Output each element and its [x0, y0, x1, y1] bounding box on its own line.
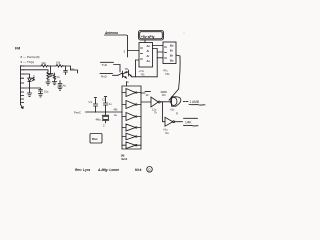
- inverter chain gate 2: [122, 101, 141, 109]
- svg-text:C1: C1: [89, 100, 93, 104]
- chain right rail: [140, 86, 142, 149]
- label LAK box: [184, 117, 198, 119]
- gate1 output tap: [141, 92, 145, 94]
- svg-text:PwrC: PwrC: [74, 111, 81, 115]
- svg-text:TxD: TxD: [102, 63, 108, 67]
- svg-text:Bo: Bo: [170, 44, 174, 48]
- svg-text:Ar: Ar: [147, 54, 150, 58]
- wire: [64, 66, 71, 71]
- svg-text:*91: *91: [141, 73, 146, 77]
- capacitor C1: [93, 98, 97, 112]
- U5 output wire: [175, 121, 183, 123]
- resistor R1: [41, 65, 49, 68]
- connector J1 bus: [20, 66, 22, 105]
- svg-text:TR: TR: [125, 67, 129, 71]
- svg-text:Antenna: Antenna: [104, 31, 118, 35]
- transistor Q2: [126, 70, 132, 77]
- ground: [38, 94, 42, 97]
- wire diagonal to U2: [169, 89, 179, 100]
- chain top bar: [122, 85, 141, 87]
- overline TxD: [101, 61, 114, 63]
- ground: [48, 74, 53, 77]
- wire stub: [24, 74, 30, 78]
- connector J1 pin stubs: [21, 66, 25, 103]
- ground: [58, 87, 62, 90]
- reset box: [90, 134, 102, 144]
- U2 pin text right column: [170, 44, 174, 63]
- U1 pin marks left column: [141, 48, 143, 59]
- svg-text:1/4K: 1/4K: [185, 121, 192, 125]
- inverter chain gate 3: [122, 113, 141, 121]
- inverter U3: [151, 97, 158, 107]
- capacitor C2: [103, 97, 107, 112]
- IC U2: [163, 42, 176, 64]
- svg-text:FM: FM: [15, 47, 20, 51]
- wire Q out: [132, 76, 158, 78]
- svg-text:A-Mfg: Lower: A-Mfg: Lower: [97, 168, 120, 172]
- wire U2 left bus: [156, 49, 158, 77]
- wire stub down: [50, 66, 52, 74]
- diode D1: [28, 78, 31, 86]
- wire TxD: [114, 65, 121, 73]
- caption circled D: [147, 167, 153, 173]
- svg-text:+5v: +5v: [170, 108, 175, 112]
- U3 output wire: [160, 101, 171, 103]
- inverter chain gate 1: [122, 89, 141, 97]
- ground: [46, 80, 50, 86]
- svg-text:9 — TX(p): 9 — TX(p): [21, 60, 35, 64]
- node dot: [95, 111, 96, 112]
- node dot: [50, 65, 51, 66]
- U1 pin text right column: [147, 44, 151, 63]
- svg-text:8 — PwrUp(9): 8 — PwrUp(9): [21, 55, 40, 59]
- svg-text:Rev: Lyra: Rev: Lyra: [75, 168, 90, 172]
- wire supply to U1: [144, 40, 146, 43]
- wire second rail: [24, 70, 48, 72]
- inverter U5: [165, 117, 173, 126]
- svg-text:10u: 10u: [44, 90, 49, 94]
- antenna underline wire: [105, 35, 128, 57]
- resistor R3: [47, 72, 49, 80]
- wire crystal rail: [86, 111, 123, 113]
- svg-text:4M: 4M: [114, 108, 119, 112]
- power supply box: [139, 31, 164, 41]
- gate U4: [172, 97, 181, 106]
- wire U1 to U2: [153, 46, 164, 49]
- inverter chain gate 5: [122, 133, 141, 140]
- ground: [52, 82, 56, 85]
- svg-text:R: R: [176, 112, 178, 116]
- wire top rail: [24, 65, 41, 67]
- capacitor C7: [58, 81, 62, 88]
- svg-text:+5v·sPly: +5v·sPly: [141, 35, 155, 39]
- svg-text:Rist: Rist: [92, 137, 97, 141]
- capacitor C6: [24, 88, 42, 94]
- node dot: [162, 101, 163, 102]
- inverter chain gate 6: [122, 142, 141, 149]
- wire: [49, 65, 57, 67]
- svg-text:Ao: Ao: [147, 59, 151, 63]
- connector J1 arrow: [21, 105, 24, 109]
- svg-text:Br: Br: [170, 54, 173, 58]
- wire U2 output right: [176, 55, 180, 89]
- wire RxD: [113, 74, 119, 76]
- node dot: [65, 65, 66, 66]
- svg-text:10k: 10k: [56, 61, 61, 65]
- wire: [71, 70, 78, 73]
- svg-text:12: 12: [146, 93, 150, 97]
- speck: [184, 33, 185, 34]
- svg-text:B‌i: B‌i: [170, 49, 173, 53]
- svg-text:R4: R4: [162, 93, 166, 97]
- wire U1 stub: [136, 59, 140, 61]
- U2 pin stubs: [157, 52, 163, 58]
- transistor Q1: [118, 71, 127, 78]
- wire U1 left down: [135, 60, 137, 77]
- gate2 output tap: [141, 101, 151, 103]
- svg-text:RxD: RxD: [101, 74, 108, 78]
- U4 output: [183, 100, 188, 102]
- diode arrows: [32, 78, 35, 81]
- svg-text:Bo: Bo: [170, 59, 174, 63]
- chain left rail: [121, 86, 123, 149]
- svg-text:Ao: Ao: [147, 44, 151, 48]
- resistor R2: [56, 65, 64, 68]
- svg-text:Ru: Ru: [166, 131, 170, 135]
- svg-text:4My: 4My: [96, 118, 102, 122]
- resistor R4: [53, 73, 55, 82]
- ground: [27, 86, 31, 97]
- svg-text:1 AMB: 1 AMB: [190, 100, 199, 104]
- svg-text:4x14: 4x14: [121, 157, 128, 161]
- inverter chain gate 4: [122, 124, 141, 131]
- crystal Y1: [102, 112, 108, 115]
- svg-text:74L: 74L: [165, 72, 170, 76]
- node dot: [105, 111, 106, 112]
- wire pin3: [128, 50, 140, 52]
- overline RxD: [100, 73, 113, 75]
- svg-text:C2: C2: [102, 98, 106, 102]
- svg-text:Kirk: Kirk: [135, 168, 142, 172]
- U2 pin marks left column: [165, 47, 167, 58]
- wire down to U5: [163, 102, 165, 122]
- capacitor C4: [64, 71, 68, 75]
- wire chain feed: [126, 82, 128, 87]
- IC U1: [139, 43, 153, 68]
- svg-text:A‌i: A‌i: [147, 49, 150, 53]
- chain bottom bar: [122, 148, 141, 150]
- svg-text:2k2: 2k2: [42, 61, 47, 65]
